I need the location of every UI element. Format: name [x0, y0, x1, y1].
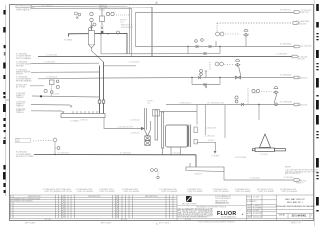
svg-text:RETURN TO TOWER: RETURN TO TOWER	[16, 156, 34, 158]
svg-text:3"-CWR-0008: 3"-CWR-0008	[280, 75, 291, 77]
svg-text:FOR DETAILS: FOR DETAILS	[121, 26, 133, 29]
svg-text:CONT 25-1-M-0007: CONT 25-1-M-0007	[99, 191, 115, 193]
svg-text:1-SP-001: 1-SP-001	[80, 119, 88, 121]
svg-text:2"-DR-0031: 2"-DR-0031	[50, 94, 59, 96]
svg-text:25-1-M-0003: 25-1-M-0003	[301, 46, 311, 48]
svg-text:25-1-M-0001: 25-1-M-0001	[292, 213, 307, 217]
svg-text:BELL BAY CIRCUIT: BELL BAY CIRCUIT	[285, 198, 305, 201]
svg-text:PIPING AND INSTRUMENTATION DIA: PIPING AND INSTRUMENTATION DIAGRAM	[276, 205, 315, 208]
svg-text:NOTE 5: NOTE 5	[208, 140, 215, 142]
svg-text:SUPPLY: SUPPLY	[16, 73, 24, 75]
svg-text:36"-PW-0001: 36"-PW-0001	[280, 9, 291, 11]
svg-text:25-1001: 25-1001	[253, 196, 260, 198]
svg-text:PK-001: PK-001	[99, 10, 105, 12]
svg-text:SHEET 2: SHEET 2	[296, 183, 303, 185]
svg-text:10"-CWR-0006: 10"-CWR-0006	[280, 102, 292, 104]
svg-text:1-TK-001: 1-TK-001	[173, 153, 181, 155]
svg-text:2"-DR-0034 SLOPE: 2"-DR-0034 SLOPE	[117, 126, 134, 128]
svg-text:6"-CWS-0004: 6"-CWS-0004	[280, 44, 291, 46]
svg-text:NOTE 6: NOTE 6	[252, 93, 259, 95]
svg-text:AND ISOMETRICS.: AND ISOMETRICS.	[285, 172, 301, 175]
svg-text:CONT 25-1-M-0002: CONT 25-1-M-0002	[258, 191, 274, 193]
svg-text:0: 0	[11, 201, 12, 203]
svg-text:8"-CWR-0002: 8"-CWR-0002	[58, 153, 69, 155]
svg-text:BY CHK: BY CHK	[185, 219, 192, 221]
svg-text:RETURN HEADER: RETURN HEADER	[16, 80, 32, 83]
svg-text:CONT 25-1-M-0006: CONT 25-1-M-0006	[161, 191, 177, 193]
svg-text:M. BROWN: M. BROWN	[253, 213, 263, 215]
svg-text:36"-PW-0001: 36"-PW-0001	[42, 5, 53, 7]
svg-text:TO SUMP: TO SUMP	[211, 156, 220, 158]
svg-text:ISSUED FOR DESIGN: ISSUED FOR DESIGN	[14, 201, 33, 203]
svg-text:10"-CWR-0006-CS1F: 10"-CWR-0006-CS1F	[207, 103, 225, 105]
svg-text:AT 75 PSIG: AT 75 PSIG	[16, 86, 26, 89]
svg-text:BELL BAY, BC 1: BELL BAY, BC 1	[287, 201, 304, 204]
svg-text:8"-DR-0044: 8"-DR-0044	[284, 177, 293, 179]
svg-text:TRENCH: TRENCH	[16, 97, 24, 99]
svg-text:CONT 25-1-M-0003: CONT 25-1-M-0003	[281, 191, 297, 193]
svg-text:2"-CWR-0018: 2"-CWR-0018	[44, 61, 55, 63]
svg-text:6"-CWS-0004: 6"-CWS-0004	[46, 54, 57, 56]
svg-text:CONT 25-1-M-0006: CONT 25-1-M-0006	[123, 191, 139, 193]
svg-text:CONT 25-1-M: CONT 25-1-M	[60, 191, 72, 193]
svg-text:1-CWS-004: 1-CWS-004	[130, 119, 139, 121]
svg-text:3"-CWR-0008: 3"-CWR-0008	[46, 76, 57, 78]
svg-text:1-CWR-006: 1-CWR-006	[205, 136, 215, 138]
svg-text:1-CWS-004-8": 1-CWS-004-8"	[205, 128, 217, 130]
svg-text:BY CHK: BY CHK	[121, 219, 128, 221]
svg-text:4"-CWS-0005: 4"-CWS-0005	[276, 54, 287, 56]
svg-text:APP'T DATE: APP'T DATE	[101, 222, 112, 225]
svg-text:CONT 25-1-M-0007: CONT 25-1-M-0007	[187, 191, 203, 193]
svg-text:CONT 25-1-M-0007: CONT 25-1-M-0007	[213, 191, 229, 193]
svg-text:D. LEE: D. LEE	[253, 210, 259, 212]
svg-text:DATE: DATE	[247, 215, 252, 218]
svg-text:SHEET 1 OF 1: SHEET 1 OF 1	[291, 223, 302, 225]
svg-text:8"-CWR-0002: 8"-CWR-0002	[120, 153, 131, 155]
svg-text:25-1-M-0006: 25-1-M-0006	[297, 104, 307, 106]
svg-text:ENG: ENG	[247, 210, 251, 212]
svg-text:CONT 25-1-M-0007: CONT 25-1-M-0007	[235, 191, 251, 193]
svg-text:RETURN: RETURN	[16, 66, 24, 68]
svg-text:APP'T DATE: APP'T DATE	[159, 222, 170, 225]
svg-text:TO DRAIN: TO DRAIN	[64, 38, 73, 41]
svg-text:1-SU-001: 1-SU-001	[194, 173, 202, 175]
svg-text:1-CWR-006: 1-CWR-006	[130, 133, 140, 135]
svg-text:TRENCH: TRENCH	[16, 112, 24, 114]
svg-text:APP'T DATE: APP'T DATE	[25, 222, 36, 225]
svg-text:TRENCH: TRENCH	[16, 105, 24, 107]
svg-text:2024-05-01: 2024-05-01	[253, 216, 262, 218]
svg-text:DESCRIPTION: DESCRIPTION	[88, 196, 101, 198]
svg-text:APPR: APPR	[247, 212, 253, 215]
svg-text:4"-CWS-0005: 4"-CWS-0005	[129, 61, 140, 63]
svg-text:BELL BAY POWER: BELL BAY POWER	[182, 203, 197, 206]
svg-text:PUMP STATION 1: PUMP STATION 1	[16, 9, 31, 12]
svg-text:UNIT 200: UNIT 200	[297, 59, 305, 61]
svg-text:SIZE A1: SIZE A1	[279, 213, 285, 216]
svg-text:25-1-M-0005: 25-1-M-0005	[297, 77, 307, 79]
svg-text:NOTE:: NOTE:	[285, 166, 292, 168]
svg-text:UNIT 100: UNIT 100	[301, 12, 309, 14]
svg-text:CONT 25-1-M-0003: CONT 25-1-M-0003	[44, 191, 60, 193]
svg-text:25-1-M-0008: 25-1-M-0008	[296, 23, 306, 25]
svg-text:TO DRAIN: TO DRAIN	[70, 120, 79, 123]
svg-text:PROJ: PROJ	[247, 196, 252, 198]
svg-text:1-CWR-006-10": 1-CWR-006-10"	[179, 102, 192, 104]
svg-text:SUPPLY HEADER: SUPPLY HEADER	[16, 57, 32, 60]
svg-text:DESCRIPTION: DESCRIPTION	[145, 196, 158, 198]
svg-text:FLUOR: FLUOR	[217, 211, 236, 217]
svg-text:1-CT-001: 1-CT-001	[260, 154, 268, 156]
svg-text:BY CHK: BY CHK	[45, 219, 52, 221]
svg-text:CONT 25-1-M-0003: CONT 25-1-M-0003	[77, 191, 93, 193]
svg-text:1-PP-001 A/B: 1-PP-001 A/B	[235, 156, 247, 159]
svg-text:8"-DR-0044: 8"-DR-0044	[250, 178, 259, 180]
svg-text:FORM 25-100 REV C: FORM 25-100 REV C	[287, 220, 303, 222]
